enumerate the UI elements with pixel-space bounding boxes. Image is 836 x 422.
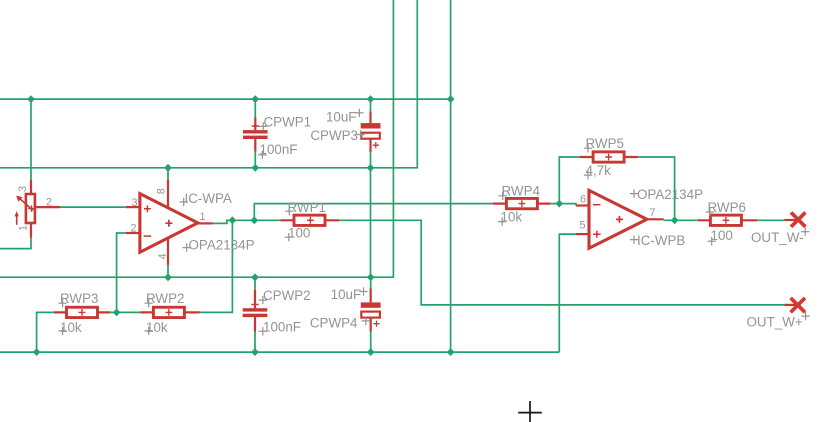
svg-text:100nF: 100nF bbox=[263, 319, 301, 334]
capacitor CPWP1 origin cross bbox=[252, 122, 259, 129]
wire node to RWP4 left bbox=[254, 204, 493, 221]
svg-text:8: 8 bbox=[156, 188, 168, 194]
label origin cross CPWP2 value bbox=[259, 327, 267, 335]
capacitor CPWP3 polarized plates bbox=[361, 123, 381, 139]
label origin cross CPWP4 value bbox=[359, 287, 367, 295]
svg-text:3: 3 bbox=[131, 197, 137, 209]
label origin cross RWP3 name bbox=[58, 299, 66, 307]
capacitor CPWP2 plates bbox=[243, 308, 268, 317]
OUT_W- pin stub bbox=[784, 219, 798, 221]
svg-text:RWP2: RWP2 bbox=[146, 291, 184, 306]
junction at bottom rail x=36 bbox=[33, 348, 41, 356]
svg-text:5: 5 bbox=[579, 220, 585, 232]
wire CPWP2 bottom lead bbox=[254, 332, 256, 353]
wire RWP6 right to OUT_W- pin bbox=[757, 219, 784, 221]
svg-text:6: 6 bbox=[580, 193, 586, 205]
svg-text:RWP3: RWP3 bbox=[60, 291, 98, 306]
label origin cross CPWP3 value bbox=[355, 109, 363, 117]
wire CPWP3 top lead bbox=[370, 99, 372, 111]
svg-text:IC-WPB: IC-WPB bbox=[637, 233, 685, 248]
svg-text:100: 100 bbox=[288, 226, 310, 241]
potentiometer RWP wiper arrow bbox=[19, 198, 33, 211]
op-amp U1B minus input mark bbox=[593, 204, 601, 206]
op-amp U1B pin 5 stub bbox=[576, 233, 590, 235]
wire op-amp U1B output to RWP6 bbox=[664, 219, 698, 221]
svg-text:1: 1 bbox=[18, 225, 30, 231]
wire RWP4 right to node bbox=[550, 203, 559, 205]
potentiometer RWP pin 3 stub bbox=[30, 180, 32, 194]
capacitor CPWP3 lead stubs bbox=[369, 111, 371, 152]
svg-text:2: 2 bbox=[46, 196, 52, 208]
capacitor CPWP3 origin cross bbox=[373, 142, 379, 148]
svg-text:OUT_W-: OUT_W- bbox=[751, 230, 804, 245]
label origin cross RWP2 value bbox=[145, 327, 153, 335]
resistor RWP1 body bbox=[294, 215, 325, 225]
danger X at OUT_W- bbox=[791, 212, 805, 226]
label origin cross CPWP1 value bbox=[258, 151, 266, 159]
capacitor CPWP4 origin cross bbox=[373, 321, 379, 327]
danger X at OUT_W+ bbox=[791, 298, 805, 312]
svg-text:7: 7 bbox=[650, 207, 656, 219]
svg-text:CPWP1: CPWP1 bbox=[264, 114, 312, 129]
wire trimmer wiper to op-amp U1A pin 3 bbox=[60, 206, 125, 208]
wire CPWP2 top lead bbox=[254, 277, 256, 290]
wire RWP2 right up to output node bbox=[200, 220, 233, 312]
wire op-amp U1A output jog bbox=[213, 220, 281, 223]
op-amp U1A center plus mark bbox=[165, 220, 172, 227]
label origin cross OUT_W+ bbox=[801, 312, 809, 320]
OUT_W+ pin stub bbox=[784, 304, 798, 306]
potentiometer RWP body bbox=[26, 194, 35, 223]
svg-text:10uF: 10uF bbox=[326, 110, 357, 125]
op-amp U1A plus input mark bbox=[144, 205, 151, 212]
wire RWP3 to RWP2 bbox=[110, 311, 140, 313]
junction at bottom rail x=450 bbox=[447, 348, 455, 356]
svg-text:1: 1 bbox=[200, 211, 206, 223]
resistor RWP6 body bbox=[710, 215, 741, 225]
wire mid rail to lower rail at x=370 bbox=[370, 168, 372, 277]
junction at U1A output node x=254 bbox=[250, 216, 258, 224]
wire RWP5 right down to output node bbox=[638, 157, 675, 220]
svg-text:CPWP4: CPWP4 bbox=[310, 315, 358, 330]
capacitor CPWP4 lead stubs bbox=[370, 289, 372, 332]
svg-text:3: 3 bbox=[17, 186, 29, 192]
junction at U1B output node bbox=[671, 216, 679, 224]
svg-text:RWP4: RWP4 bbox=[502, 184, 541, 199]
label origin cross OUT_W- bbox=[801, 228, 809, 236]
junction at U1A output node x=232 bbox=[229, 216, 237, 224]
wire CPWP4 bottom lead bbox=[370, 332, 372, 353]
svg-text:4: 4 bbox=[157, 253, 169, 259]
label origin cross RWP1 name bbox=[285, 207, 293, 215]
label origin cross RWP6 value bbox=[708, 237, 716, 245]
svg-text:10k: 10k bbox=[501, 210, 523, 225]
svg-text:RWP6: RWP6 bbox=[708, 200, 746, 215]
junction at mid rail x=255 bbox=[251, 164, 259, 172]
svg-text:100: 100 bbox=[711, 228, 733, 243]
capacitor CPWP4 polarized plates bbox=[361, 302, 381, 317]
label origin cross CPWP1 name bbox=[259, 122, 267, 130]
junction at lower rail x=255 bbox=[251, 273, 259, 281]
label origin cross OPA2134P B bbox=[630, 189, 638, 197]
junction at mid rail x=168 bbox=[164, 164, 172, 172]
svg-text:10k: 10k bbox=[146, 320, 168, 335]
junction at top rail x=450 bbox=[447, 95, 455, 103]
resistor RWP6 lead stubs bbox=[698, 219, 758, 221]
label origin cross RWP3 value bbox=[58, 327, 66, 335]
op-amp U1B pin 7 stub bbox=[647, 218, 664, 220]
label origin cross RWP4 name bbox=[499, 192, 507, 200]
svg-text:RWP5: RWP5 bbox=[586, 136, 624, 151]
wire CPWP4 top lead bbox=[370, 277, 372, 288]
op-amp U1A triangle bbox=[140, 194, 198, 253]
svg-text:RWP1: RWP1 bbox=[288, 200, 326, 215]
svg-text:CPWP3: CPWP3 bbox=[310, 128, 358, 143]
resistor RWP5 body bbox=[593, 152, 624, 162]
op-amp U1B pin 6 stub bbox=[576, 204, 590, 206]
svg-text:10k: 10k bbox=[60, 320, 82, 335]
svg-text:CPWP2: CPWP2 bbox=[263, 288, 311, 303]
wire node to op-amp U1B pin 6 jog bbox=[559, 204, 576, 206]
junction at top rail x=31 bbox=[27, 95, 35, 103]
capacitor CPWP1 plates bbox=[243, 130, 268, 139]
label origin cross IC-WPA bbox=[180, 198, 188, 206]
op-amp U1B center plus mark bbox=[616, 216, 623, 223]
wire trimmer pin 1 to left edge bbox=[0, 238, 31, 249]
op-amp U1A minus input mark bbox=[144, 235, 152, 237]
svg-text:OUT_W+: OUT_W+ bbox=[747, 315, 803, 330]
resistor RWP2 lead stubs bbox=[140, 311, 199, 313]
label origin cross OPA2134P A bbox=[183, 243, 191, 251]
junction at top rail x=255 bbox=[251, 95, 259, 103]
op-amp U1A pin 4 stub inside bbox=[167, 239, 169, 265]
label origin cross RWP5 value bbox=[584, 171, 592, 179]
wire vertical feed to bottom rail bbox=[450, 0, 452, 352]
op-amp U1A pin 3 stub bbox=[126, 206, 139, 208]
op-amp U1B plus input mark bbox=[593, 231, 601, 238]
junction at bottom rail x=370 bbox=[367, 348, 375, 356]
resistor RWP5 lead stubs bbox=[580, 156, 638, 158]
wire node up to RWP5 left bbox=[559, 157, 579, 204]
potentiometer RWP pin 2 stub bbox=[35, 206, 60, 208]
op-amp U1A pin 1 stub bbox=[198, 222, 213, 224]
label origin cross IC-WPB bbox=[630, 235, 638, 243]
resistor RWP2 body bbox=[153, 307, 184, 317]
op-amp U1A pin 8 stub inside bbox=[167, 180, 169, 207]
wire vertical feed to mid rail bbox=[0, 0, 417, 168]
junction at lower rail x=370 bbox=[367, 273, 375, 281]
op-amp U1A pin 2 stub bbox=[126, 232, 139, 234]
wire op-amp U1A pin 8 to mid rail bbox=[167, 168, 169, 180]
junction at RWP4 output node bbox=[555, 200, 563, 208]
junction at top rail x=370 bbox=[367, 95, 375, 103]
wire vertical feed to lower mid rail bbox=[0, 0, 393, 277]
label origin cross RWP4 value bbox=[498, 217, 506, 225]
label origin cross RWP6 name bbox=[706, 208, 714, 216]
wire net V+ top rail bbox=[0, 98, 451, 100]
potentiometer RWP adjust arrow bbox=[16, 215, 18, 225]
svg-text:IC-WPA: IC-WPA bbox=[185, 191, 232, 206]
label origin cross CPWP2 name bbox=[259, 296, 267, 304]
wire op-amp U1A pin 2 feedback down bbox=[117, 233, 126, 312]
wire trimmer pin 3 to top rail bbox=[30, 99, 32, 181]
junction at bottom rail x=255 bbox=[251, 348, 259, 356]
wire bottom rail bbox=[0, 351, 559, 353]
label origin cross RWP5 name bbox=[584, 144, 592, 152]
wire CPWP1 top lead bbox=[254, 99, 256, 117]
capacitor CPWP2 lead stubs bbox=[254, 290, 256, 332]
sheet origin cross bbox=[518, 401, 542, 422]
svg-text:OPA2134P: OPA2134P bbox=[637, 187, 703, 202]
junction at mid rail x=370 bbox=[367, 164, 375, 172]
wire CPWP3 bottom lead bbox=[370, 152, 372, 168]
wire bottom rail to op-amp U1B pin 5 bbox=[559, 234, 576, 352]
junction at RWP3 RWP2 node bbox=[113, 309, 121, 317]
wire CPWP1 bottom lead bbox=[254, 152, 256, 168]
svg-text:100nF: 100nF bbox=[260, 142, 298, 157]
resistor RWP4 lead stubs bbox=[493, 203, 550, 205]
svg-text:10uF: 10uF bbox=[331, 287, 362, 302]
resistor RWP4 body bbox=[506, 198, 537, 208]
potentiometer RWP origin cross bbox=[28, 205, 35, 212]
op-amp U1B triangle bbox=[589, 190, 647, 248]
label origin cross CPWP3 name bbox=[357, 130, 365, 138]
svg-text:4,7k: 4,7k bbox=[586, 163, 612, 178]
potentiometer RWP pin 1 stub bbox=[30, 223, 32, 238]
wire RWP1 right to OUT_W+ line bbox=[339, 220, 784, 305]
resistor RWP1 lead stubs bbox=[280, 219, 339, 221]
junction at lower rail x=168 bbox=[164, 273, 172, 281]
resistor RWP3 lead stubs bbox=[54, 311, 110, 313]
svg-text:OPA2134P: OPA2134P bbox=[189, 237, 255, 252]
label origin cross RWP2 name bbox=[145, 299, 153, 307]
wire RWP3 left to bottom rail bbox=[37, 312, 54, 352]
svg-text:2: 2 bbox=[130, 223, 136, 235]
label origin cross RWP1 value bbox=[285, 233, 293, 241]
resistor RWP3 body bbox=[67, 307, 98, 317]
capacitor CPWP1 lead stubs bbox=[254, 117, 256, 151]
capacitor CPWP2 origin cross bbox=[251, 301, 258, 308]
label origin cross CPWP4 name bbox=[362, 317, 370, 325]
wire op-amp U1A pin 4 to lower rail bbox=[167, 265, 169, 277]
